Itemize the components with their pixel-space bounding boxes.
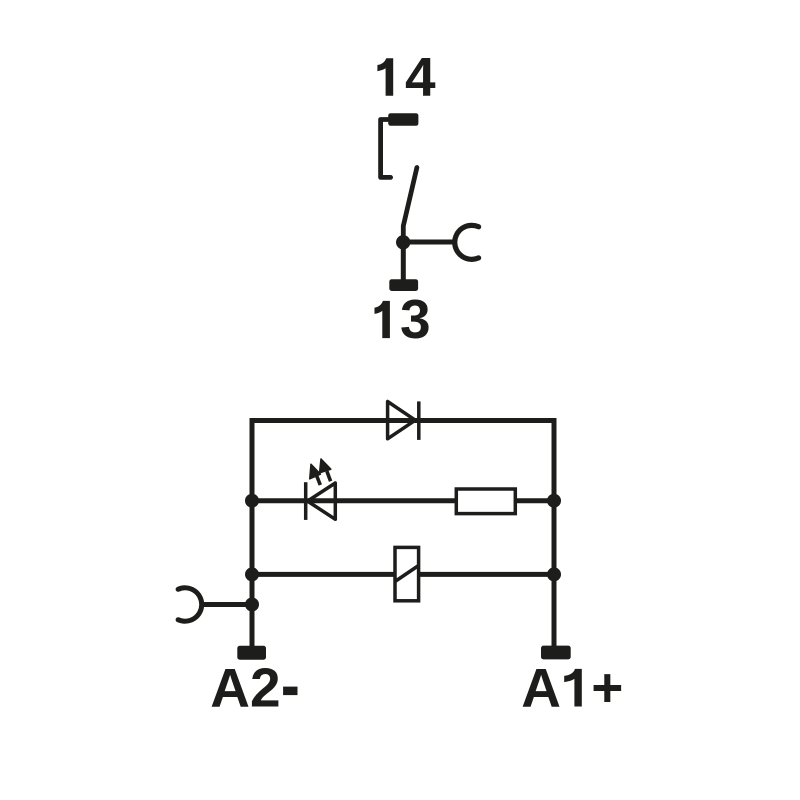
junction node: left bottom row	[245, 567, 259, 581]
terminal pad A1	[541, 646, 571, 660]
LED emission arrow (right)	[320, 459, 331, 481]
wire hook from terminal 14	[381, 120, 391, 178]
junction node: left middle row	[245, 494, 259, 508]
terminal pad 13	[389, 279, 418, 291]
svg-text:3: 3	[400, 288, 431, 350]
junction node: right middle row	[547, 494, 561, 508]
terminal label A2-	[210, 657, 297, 719]
LED emission arrow (left)	[310, 464, 321, 485]
terminal label 14	[377, 46, 436, 108]
terminal label 13	[375, 288, 431, 350]
junction node at contact 13	[396, 235, 410, 249]
terminal pad 14	[388, 113, 418, 126]
wire: coil circuit frame (A2 vertical, top side, A1 vertical)	[252, 421, 554, 649]
freewheeling diode V1	[388, 401, 419, 440]
resistor R1	[456, 489, 515, 514]
junction node: plug contact branch	[245, 598, 259, 612]
junction node: right bottom row	[547, 567, 561, 581]
switch blade (NO contact 14-13)	[403, 168, 417, 243]
wire to terminal 13	[401, 242, 406, 281]
svg-text:A2: A2	[210, 657, 280, 719]
wire: bottom row (relay coil branch)	[252, 572, 554, 577]
relay coil K1	[395, 547, 419, 600]
svg-text:A: A	[521, 657, 561, 719]
wire to plug-in contact (A2 side)	[203, 602, 252, 607]
terminal pad A2	[237, 646, 266, 660]
plug-in contact symbol (top, opening right)	[455, 225, 479, 259]
terminal label A1+	[521, 657, 623, 719]
svg-text:+: +	[591, 657, 623, 719]
wire: middle row (LED / resistor branch)	[252, 498, 554, 503]
wire to plug-in contact (top)	[403, 240, 455, 245]
LED indicator	[306, 482, 336, 520]
plug-in contact symbol (A2, opening left)	[178, 588, 202, 621]
svg-text:4: 4	[405, 46, 436, 108]
